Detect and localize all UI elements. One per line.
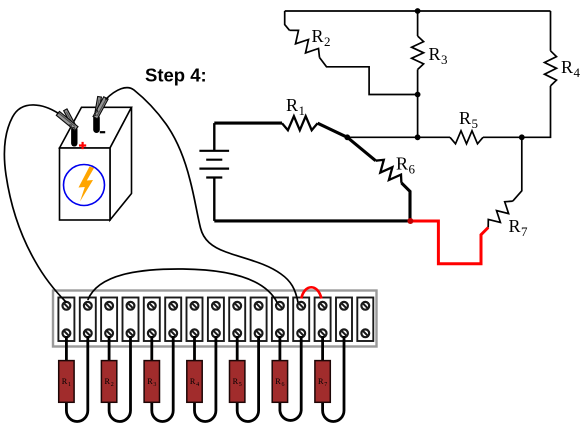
wire lead from right clip to terminal 12	[106, 88, 299, 303]
svg-text:R: R	[62, 377, 68, 386]
wire R3 node to R5 rail	[417, 95, 419, 138]
resistor R6 pictorial	[272, 336, 301, 420]
terminal cell 2	[80, 298, 96, 342]
terminal cell 5	[144, 298, 160, 342]
terminal cell 9	[229, 298, 245, 342]
node top rail / R3 top	[415, 8, 421, 14]
terminal cell 4	[123, 298, 139, 342]
svg-text:R: R	[312, 26, 324, 46]
svg-text:R: R	[396, 154, 408, 174]
svg-text:7: 7	[324, 382, 327, 388]
svg-text:5: 5	[472, 116, 479, 131]
node R3/R5 rail junction	[415, 134, 421, 140]
wire R1 to node (thick diagonal)	[318, 123, 348, 137]
terminal cell 11	[272, 298, 288, 342]
resistor R4	[522, 11, 581, 137]
svg-text:3: 3	[441, 52, 448, 67]
node R1/R6 junction	[344, 134, 350, 140]
node R5/R4/R7 junction	[519, 134, 525, 140]
wire node to R5 rail (thin)	[347, 136, 417, 138]
svg-text:R: R	[509, 216, 521, 236]
wire lead from left clip to terminal 1	[4, 105, 66, 303]
svg-text:R: R	[561, 57, 573, 77]
svg-text:4: 4	[196, 382, 199, 388]
resistor R7 pictorial	[315, 336, 344, 421]
svg-text:R: R	[275, 377, 281, 386]
wire red jumper terminal 12 to 13	[301, 287, 321, 298]
svg-text:3: 3	[153, 382, 156, 388]
terminal cell 3	[101, 298, 117, 342]
alligator clip right	[93, 96, 108, 118]
resistor R1 pictorial	[59, 336, 88, 421]
svg-text:R: R	[105, 377, 111, 386]
battery post right	[93, 115, 100, 134]
resistor R6	[347, 137, 415, 221]
svg-text:Step 4:: Step 4:	[145, 65, 207, 86]
svg-text:2: 2	[111, 382, 114, 388]
terminal cell 15	[357, 298, 373, 342]
resistor R5 pictorial	[230, 336, 259, 422]
resistor R5	[418, 108, 522, 144]
svg-text:6: 6	[282, 382, 285, 388]
svg-text:R: R	[286, 95, 298, 115]
wire red new connection to R7	[410, 221, 488, 264]
wire top rail	[285, 10, 551, 12]
terminal cell 14	[336, 298, 352, 342]
svg-text:6: 6	[409, 162, 416, 177]
svg-text:7: 7	[521, 224, 528, 239]
alligator clip left	[56, 109, 78, 131]
svg-text:R: R	[233, 377, 239, 386]
battery symbol	[199, 123, 229, 221]
battery pictorial box	[60, 107, 132, 220]
battery logo lightning bolt	[79, 167, 95, 202]
terminal cell 1	[58, 298, 74, 342]
battery plus mark	[79, 142, 86, 149]
terminal cell 6	[165, 298, 181, 342]
battery logo circle	[64, 165, 105, 206]
battery post left	[71, 127, 77, 147]
svg-text:R: R	[147, 377, 153, 386]
resistor R1	[282, 95, 318, 130]
node R2/R3 junction	[415, 92, 421, 98]
terminal cell 8	[208, 298, 224, 342]
svg-text:R: R	[318, 377, 324, 386]
battery minus mark	[100, 131, 105, 133]
svg-text:5: 5	[239, 382, 242, 388]
resistor R3	[412, 11, 448, 95]
wire jumper arc terminal 2 to terminal 11	[88, 269, 278, 303]
resistor R7	[488, 137, 528, 239]
terminal cell 7	[187, 298, 203, 342]
terminal cell 10	[251, 298, 267, 342]
wire battery bottom rail (thick)	[214, 219, 410, 222]
resistor R3 pictorial	[144, 336, 173, 422]
terminal strip body	[53, 291, 377, 347]
svg-text:4: 4	[574, 65, 581, 80]
svg-text:R: R	[429, 44, 441, 64]
svg-text:R: R	[459, 108, 471, 128]
svg-text:1: 1	[299, 103, 306, 118]
wire battery top to R1 (thick)	[214, 122, 282, 125]
resistor R4 pictorial	[187, 336, 216, 422]
svg-text:2: 2	[324, 34, 331, 49]
resistor R2 pictorial	[101, 336, 130, 422]
terminal cell 12	[293, 298, 309, 342]
svg-text:R: R	[190, 377, 196, 386]
terminal cell 13	[315, 298, 331, 342]
svg-text:1: 1	[68, 382, 71, 388]
node bottom rail / red wire junction	[407, 218, 413, 224]
resistor R2	[285, 11, 418, 95]
